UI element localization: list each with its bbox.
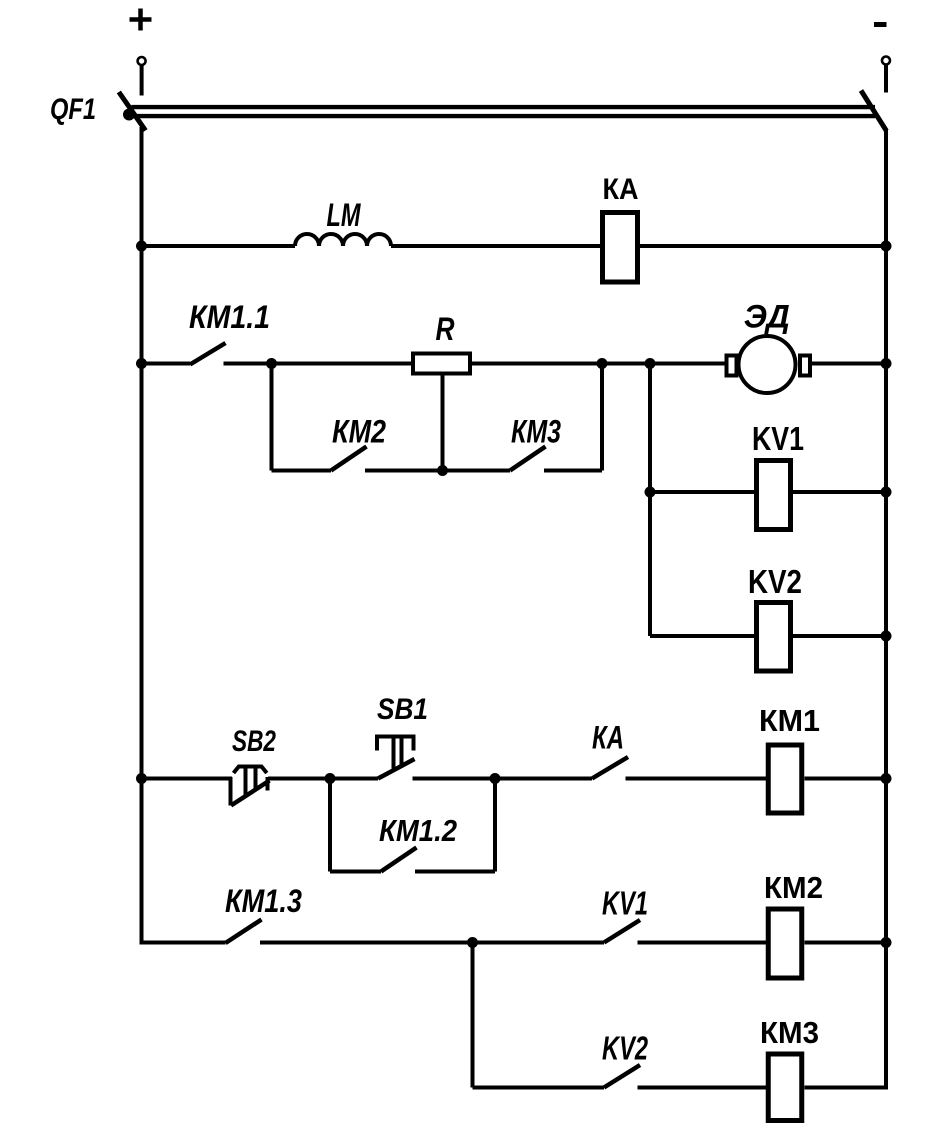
svg-text:ЭД: ЭД xyxy=(744,299,790,335)
wire row1 mid xyxy=(391,244,602,248)
svg-text:КА: КА xyxy=(603,173,639,206)
wire row5 a xyxy=(473,1086,605,1090)
svg-text:КМ1.3: КМ1.3 xyxy=(225,883,302,919)
svg-text:KV1: KV1 xyxy=(752,420,804,457)
pushbutton SB2 step xyxy=(229,777,233,806)
wire KV2 row right xyxy=(791,634,886,638)
breaker QF1 right blade xyxy=(861,91,887,132)
wire right vertical bus xyxy=(884,129,888,1090)
relay coil KV2 xyxy=(757,603,791,672)
wire row3 c xyxy=(626,777,768,781)
wire row3 b xyxy=(413,777,593,781)
svg-text:KV2: KV2 xyxy=(602,1030,648,1067)
wire row3 d xyxy=(805,777,887,781)
wire QF1 bus lower line xyxy=(132,114,876,118)
motor ЭД circle xyxy=(739,336,796,393)
wire row2 c xyxy=(472,362,726,366)
svg-text:КМ2: КМ2 xyxy=(764,870,823,905)
svg-text:SB1: SB1 xyxy=(377,693,428,726)
plus terminal label xyxy=(130,9,152,31)
svg-text:КМ1.2: КМ1.2 xyxy=(379,813,457,848)
pushbutton SB2 blade xyxy=(231,781,270,806)
node F xyxy=(490,773,501,784)
wire KM2-KM3 mid xyxy=(365,469,510,473)
svg-text:КМ3: КМ3 xyxy=(760,1015,819,1050)
contact KM1.3 blade xyxy=(226,920,262,944)
wire row5 b xyxy=(638,1086,767,1090)
node row2 right xyxy=(881,358,892,369)
wire + stem xyxy=(140,66,144,96)
pushbutton SB2 actuator cap xyxy=(234,767,267,774)
node A xyxy=(266,358,277,369)
wire rise to node B xyxy=(600,364,604,471)
wire KV2 row left xyxy=(650,634,757,638)
pushbutton SB1 actuator cap xyxy=(377,737,414,751)
plus terminal circle xyxy=(138,57,146,65)
node row1 left xyxy=(136,241,147,252)
wire row5 drop xyxy=(471,943,475,1088)
contact KM1.2 blade xyxy=(381,848,417,872)
minus terminal circle xyxy=(882,57,890,65)
svg-text:KV1: KV1 xyxy=(602,885,648,922)
wire KM1.2 row left xyxy=(330,870,381,874)
wire left vertical bus xyxy=(140,127,144,945)
contactor coil KM2 xyxy=(768,909,802,978)
node KV1 right xyxy=(881,487,892,498)
svg-text:КА: КА xyxy=(592,720,624,756)
wire drop from node A xyxy=(270,364,274,471)
pushbutton SB2 plunger stem xyxy=(244,767,248,795)
contact KM1.1 blade xyxy=(190,343,226,365)
contact KM2 blade xyxy=(331,447,367,471)
node row1 right xyxy=(881,241,892,252)
wire row4 b xyxy=(638,941,767,945)
contact KM3 blade xyxy=(510,447,546,471)
junction QF1 left dot xyxy=(123,109,135,121)
svg-text:КМ1.1: КМ1.1 xyxy=(189,299,270,335)
contactor coil KM3 xyxy=(768,1054,802,1121)
wire KV1 row right xyxy=(791,490,886,494)
svg-text:КМ1: КМ1 xyxy=(759,703,820,738)
wire QF1 bus upper line xyxy=(132,105,876,109)
svg-text:КМ3: КМ3 xyxy=(511,414,561,450)
contact KA blade xyxy=(592,757,628,779)
wire KM1.2 rise xyxy=(493,779,497,872)
wire row3 left xyxy=(142,777,233,781)
node row2 left xyxy=(136,358,147,369)
wire row2 d xyxy=(810,362,886,366)
wire row4 c xyxy=(805,941,887,945)
node row3 right xyxy=(881,773,892,784)
wire - stem xyxy=(884,65,888,93)
svg-text:SB2: SB2 xyxy=(232,725,276,758)
resistor R xyxy=(413,354,470,374)
node KV1 left xyxy=(645,487,656,498)
svg-text:R: R xyxy=(436,311,455,347)
breaker QF1 left blade xyxy=(119,92,146,131)
node E xyxy=(325,773,336,784)
node D under R xyxy=(437,465,448,476)
pushbutton SB2 right contact nub xyxy=(266,777,270,791)
wire row1 left xyxy=(142,244,296,248)
relay coil KA xyxy=(603,213,638,283)
wire KM1.2 drop xyxy=(328,779,332,872)
svg-text:KV2: KV2 xyxy=(748,563,802,600)
wire R center drop xyxy=(441,374,445,471)
wire row2 stub xyxy=(142,362,191,366)
wire row2 a xyxy=(224,362,272,366)
contact KV1 blade xyxy=(604,920,640,943)
motor ЭД right brush xyxy=(800,356,810,376)
svg-text:КМ2: КМ2 xyxy=(332,414,386,450)
node C xyxy=(645,358,656,369)
pushbutton SB1 plunger stem xyxy=(392,739,396,769)
wire row2 b xyxy=(272,362,412,366)
wire row4 elbow left xyxy=(142,941,226,945)
svg-text:LM: LM xyxy=(327,197,362,233)
node row4 right xyxy=(881,937,892,948)
wire KM1.2 row right xyxy=(415,870,495,874)
relay coil KV1 xyxy=(757,461,791,530)
svg-text:QF1: QF1 xyxy=(50,93,96,126)
wire KV branch vertical xyxy=(648,364,652,637)
node row3 left xyxy=(136,773,147,784)
wire KM2 row left xyxy=(272,469,332,473)
contact KV2 blade xyxy=(604,1065,640,1088)
wire row4 a xyxy=(260,941,604,945)
inductor LM xyxy=(295,234,391,246)
motor ЭД left brush xyxy=(727,356,737,376)
node KV2 right xyxy=(881,631,892,642)
wire row3 a xyxy=(268,777,378,781)
pushbutton SB1 blade xyxy=(378,759,415,779)
wire KM3 right xyxy=(544,469,602,473)
minus terminal label xyxy=(874,22,887,27)
wire row5 c xyxy=(805,1086,887,1090)
node G xyxy=(467,937,478,948)
node B xyxy=(597,358,608,369)
wire KV1 row left xyxy=(650,490,757,494)
contactor coil KM1 xyxy=(768,745,802,813)
wire row1 right xyxy=(640,244,886,248)
